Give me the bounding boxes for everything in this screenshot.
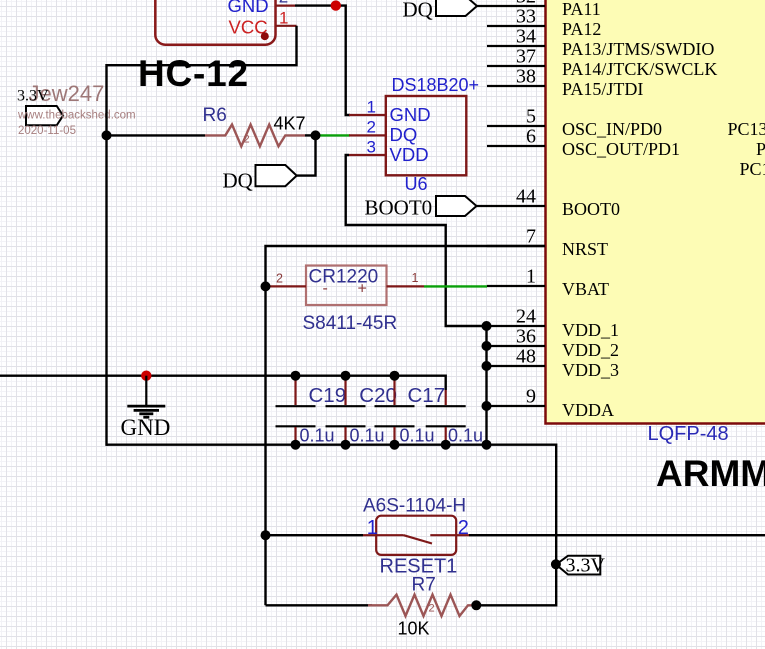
junction C4 bottom xyxy=(441,440,451,450)
HC-12 pin dot (red) xyxy=(261,32,269,40)
svg-text:PA13/JTMS/SWDIO: PA13/JTMS/SWDIO xyxy=(562,39,714,59)
svg-text:PA12: PA12 xyxy=(562,19,601,39)
MCU pin 36 VDD_2 xyxy=(487,325,620,360)
svg-text:2: 2 xyxy=(244,134,250,146)
svg-text:3.3V: 3.3V xyxy=(17,88,49,105)
wire NRST to R7 xyxy=(266,604,373,606)
junction VDD_3 xyxy=(482,361,492,371)
net flag DQ (mid) xyxy=(256,165,297,186)
svg-text:0.1u: 0.1u xyxy=(300,425,335,445)
RESET1 pin 2 xyxy=(456,517,469,539)
wire HC-12 GND to DS18B20 GND xyxy=(295,6,350,115)
svg-text:0.1u: 0.1u xyxy=(400,425,435,445)
svg-text:4K7: 4K7 xyxy=(274,114,306,134)
junction VDD_1 xyxy=(482,321,492,331)
svg-text:GND: GND xyxy=(390,104,431,125)
svg-text:S8411-45R: S8411-45R xyxy=(303,313,398,334)
junction (red) GND net top xyxy=(331,0,341,10)
svg-text:44: 44 xyxy=(516,185,536,207)
MCU pin 37 PA14/JTCK/SWCLK xyxy=(487,45,717,79)
wire U6 VDD to MCU VDD_1 xyxy=(346,155,487,326)
svg-text:+: + xyxy=(358,281,367,298)
svg-text:5: 5 xyxy=(526,105,536,127)
svg-text:6: 6 xyxy=(526,125,536,147)
wire GND rail xyxy=(0,376,446,390)
svg-text:1: 1 xyxy=(367,98,376,117)
svg-text:0.1u: 0.1u xyxy=(448,425,483,445)
svg-text:2: 2 xyxy=(429,603,435,615)
wire NRST to RESET1 xyxy=(266,534,364,536)
svg-text:2: 2 xyxy=(458,517,469,539)
resistor R7 xyxy=(368,595,476,616)
svg-text:C17: C17 xyxy=(408,384,446,407)
svg-text:DQ: DQ xyxy=(403,0,433,21)
wire DQ flag to junction xyxy=(297,135,316,175)
svg-text:OSC_IN/PD0: OSC_IN/PD0 xyxy=(562,119,662,139)
U6 pin 1 GND xyxy=(349,98,431,126)
capacitor C19 xyxy=(276,377,347,445)
svg-text:VDD_3: VDD_3 xyxy=(562,360,619,380)
svg-text:DS18B20+: DS18B20+ xyxy=(392,75,480,95)
MCU pin 48 VDD_3 xyxy=(487,345,620,380)
junction C19 bottom xyxy=(291,440,301,450)
svg-text:BOOT0: BOOT0 xyxy=(365,196,433,220)
MCU pin 38 PA15/JTDI xyxy=(487,65,643,99)
MCU pin 44 BOOT0 xyxy=(477,185,621,219)
svg-text:BOOT0: BOOT0 xyxy=(562,199,620,219)
junction CR1220 minus / NRST xyxy=(261,281,271,291)
svg-text:www.thebackshed.com: www.thebackshed.com xyxy=(17,109,136,121)
junction C20 bottom xyxy=(341,440,351,450)
svg-text:1: 1 xyxy=(367,517,378,539)
MCU U1 LQFP-48 body xyxy=(546,0,765,424)
svg-text:PC13: PC13 xyxy=(728,119,765,139)
svg-text:48: 48 xyxy=(516,345,536,367)
RESET1 pin 1 xyxy=(363,517,378,539)
MCU pin 9 VDDA xyxy=(487,385,615,420)
svg-text:9: 9 xyxy=(526,385,536,407)
svg-text:2020-11-05: 2020-11-05 xyxy=(18,125,76,137)
junction R7 / 3.3V xyxy=(471,600,481,610)
junction (red) GND symbol xyxy=(141,371,151,381)
net flag DQ (top) xyxy=(436,0,477,16)
svg-text:PA11: PA11 xyxy=(562,0,601,19)
svg-text:0.1u: 0.1u xyxy=(350,425,385,445)
wire 3.3V rail bottom xyxy=(107,445,557,606)
MCU pin 32 PA11 xyxy=(477,0,601,19)
capacitor C17 xyxy=(375,377,446,445)
wire HC-12 VCC to 3.3V rail xyxy=(107,26,297,446)
junction VDD_2 xyxy=(482,341,492,351)
junction C17 top xyxy=(390,371,400,381)
svg-text:GND: GND xyxy=(228,0,269,16)
RESET1 contacts xyxy=(376,535,456,543)
svg-text:-: - xyxy=(323,280,328,297)
svg-text:DQ: DQ xyxy=(390,124,418,145)
svg-text:24: 24 xyxy=(516,305,536,327)
svg-text:U6: U6 xyxy=(405,174,428,194)
svg-text:A6S-1104-H: A6S-1104-H xyxy=(363,496,466,517)
svg-text:R6: R6 xyxy=(203,105,227,126)
junction 3.3V flag xyxy=(551,559,561,569)
wire R6 to junction xyxy=(305,134,316,136)
svg-text:R7: R7 xyxy=(412,575,436,596)
svg-text:CR1220: CR1220 xyxy=(309,267,379,288)
svg-text:C20: C20 xyxy=(359,384,397,407)
capacitor C? (4th) xyxy=(426,390,483,445)
MCU pin 24 VDD_1 xyxy=(487,305,620,340)
svg-text:VDD_1: VDD_1 xyxy=(562,320,619,340)
CR1220 pin 2 xyxy=(266,272,307,287)
ground symbol xyxy=(127,376,165,418)
junction C20 top xyxy=(341,371,351,381)
wire MCU VDD pins vertical xyxy=(485,326,487,445)
MCU pin 33 PA12 xyxy=(487,5,601,39)
junction NRST / RESET1 xyxy=(261,530,271,540)
resistor R6 xyxy=(205,124,305,146)
svg-text:2: 2 xyxy=(367,118,376,137)
junction VDD rail bottom xyxy=(482,440,492,450)
svg-text:GND: GND xyxy=(121,415,171,440)
U6 pin 3 VDD xyxy=(349,138,429,166)
wire RESET1 right (to edge) xyxy=(469,534,765,536)
wire 3.3V to R6 xyxy=(107,134,206,136)
svg-text:PA14/JTCK/SWCLK: PA14/JTCK/SWCLK xyxy=(562,59,717,79)
battery CR1220 body xyxy=(306,266,387,306)
svg-text:OSC_OUT/PD1: OSC_OUT/PD1 xyxy=(562,139,680,159)
svg-text:PC14: PC14 xyxy=(756,139,765,159)
junction C17 bottom xyxy=(390,440,400,450)
svg-text:NRST: NRST xyxy=(562,239,608,259)
HC-12 pin 2 stub xyxy=(276,4,296,6)
svg-text:34: 34 xyxy=(516,25,536,47)
svg-text:1: 1 xyxy=(526,265,536,287)
wire (green) CR1220 plus to VBAT xyxy=(424,285,487,287)
svg-text:3: 3 xyxy=(367,138,376,157)
svg-text:C19: C19 xyxy=(309,384,347,407)
svg-text:10K: 10K xyxy=(398,619,430,639)
power flag 3.3V (right) xyxy=(556,556,600,575)
svg-text:LQFP-48: LQFP-48 xyxy=(648,423,729,445)
power flag 3.3V (left) xyxy=(26,106,63,125)
junction DQ net xyxy=(311,130,321,140)
junction C19 top xyxy=(291,371,301,381)
junction VDDA xyxy=(482,401,492,411)
svg-text:HC-12: HC-12 xyxy=(138,53,249,94)
svg-text:7: 7 xyxy=(526,225,536,247)
svg-text:PA15/JTDI: PA15/JTDI xyxy=(562,79,643,99)
wire (green) junction to DS18B20 DQ xyxy=(316,134,351,136)
svg-text:VDDA: VDDA xyxy=(562,400,614,420)
wire NRST net xyxy=(266,246,546,605)
svg-text:38: 38 xyxy=(516,65,536,87)
U6 pin 2 DQ xyxy=(349,118,417,146)
svg-text:ARMM: ARMM xyxy=(656,453,765,494)
svg-text:36: 36 xyxy=(516,325,536,347)
svg-text:33: 33 xyxy=(516,5,536,27)
svg-text:1: 1 xyxy=(279,8,288,27)
MCU pin 6 OSC_OUT/PD1 xyxy=(487,125,680,159)
svg-text:2: 2 xyxy=(276,272,283,286)
svg-text:37: 37 xyxy=(516,45,536,67)
capacitor C20 xyxy=(326,377,397,445)
HC-12 pin 1 stub xyxy=(276,25,297,27)
switch RESET1 body xyxy=(376,516,456,555)
DS18B20 U6 body xyxy=(386,96,467,175)
svg-text:VDD_2: VDD_2 xyxy=(562,340,619,360)
HC-12 module body xyxy=(155,0,275,45)
svg-text:1: 1 xyxy=(412,271,419,285)
MCU pin 1 VBAT xyxy=(487,265,609,299)
svg-text:3.3V: 3.3V xyxy=(566,555,606,577)
junction 3.3V / R6 xyxy=(102,130,112,140)
svg-text:PC15: PC15 xyxy=(740,159,765,179)
CR1220 pin 1 xyxy=(387,271,425,286)
svg-text:VDD: VDD xyxy=(390,144,429,165)
svg-text:DQ: DQ xyxy=(223,169,253,193)
svg-text:VBAT: VBAT xyxy=(562,279,609,299)
MCU pin 5 OSC_IN/PD0 xyxy=(487,105,662,139)
net flag BOOT0 xyxy=(436,196,477,216)
MCU pin 7 NRST xyxy=(487,225,608,259)
MCU pin 34 PA13/JTMS/SWDIO xyxy=(487,25,714,59)
